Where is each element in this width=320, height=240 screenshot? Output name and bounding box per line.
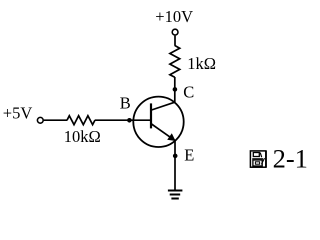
caption glyph "tu" (figure) (250, 151, 266, 168)
svg-text:B: B (120, 94, 131, 113)
node E junction dot (173, 154, 178, 159)
svg-text:C: C (183, 83, 194, 102)
wire from +5V terminal to R2 (44, 119, 67, 121)
wire from R2 to base (95, 119, 151, 121)
svg-text:+10V: +10V (155, 7, 193, 26)
svg-text:1kΩ: 1kΩ (187, 54, 216, 73)
resistor R1 1kohm (170, 46, 180, 78)
wire from R1 to collector (174, 77, 176, 102)
terminal +10V (172, 29, 178, 35)
svg-text:10kΩ: 10kΩ (64, 127, 101, 146)
ground (168, 191, 183, 199)
svg-text:E: E (184, 146, 194, 165)
wire from emitter to ground (174, 140, 176, 190)
terminal +5V (37, 117, 43, 123)
svg-text:+5V: +5V (3, 104, 33, 123)
transistor Q1 (NPN) (133, 97, 183, 147)
wire from +10V terminal to R1 (174, 36, 176, 46)
node B junction dot (127, 118, 132, 123)
node C junction dot (173, 87, 178, 92)
resistor R2 10kohm (67, 116, 95, 125)
svg-text:2-1: 2-1 (273, 143, 308, 173)
